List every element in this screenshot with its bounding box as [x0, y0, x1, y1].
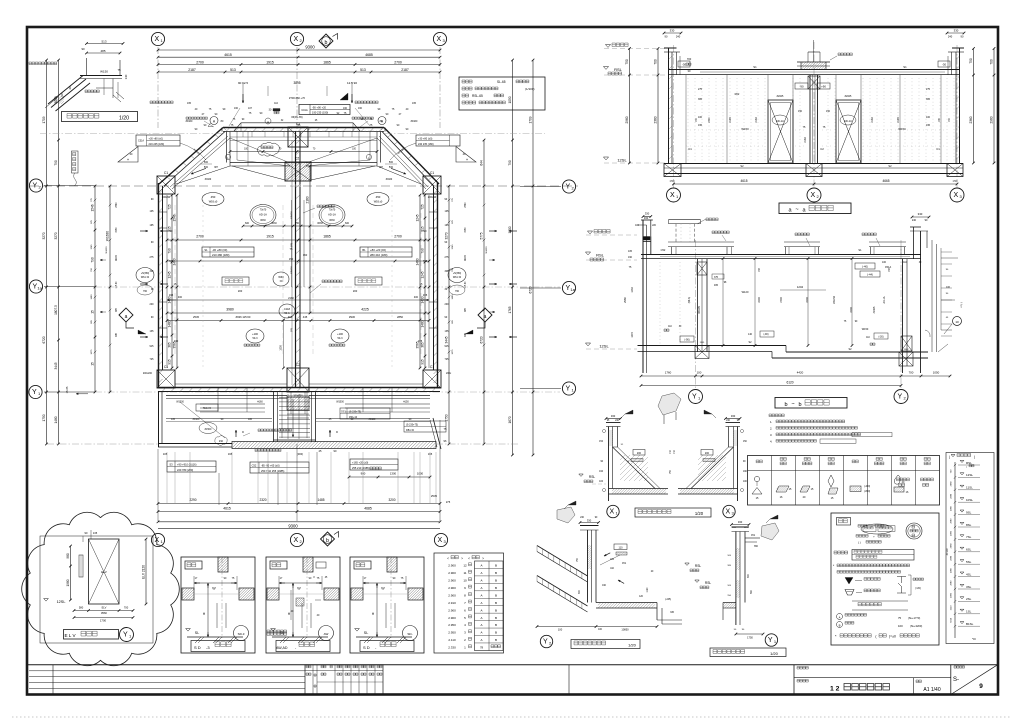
grid line X3 (top) — [439, 47, 441, 128]
svg-text:4SL: 4SL — [966, 572, 972, 576]
ro-ro bottom dim — [736, 633, 763, 635]
svg-text:12SL: 12SL — [617, 158, 627, 163]
svg-text:365: 365 — [168, 342, 172, 348]
svg-text:1750: 1750 — [42, 414, 46, 421]
lower boxed label S3 — [167, 461, 216, 472]
svg-text:(<20): (<20) — [915, 587, 921, 590]
svg-text:165: 165 — [428, 452, 433, 456]
valley diagonals to C2 — [232, 166, 285, 180]
svg-text:10850: 10850 — [621, 628, 629, 632]
grid circle X1 section a-a — [667, 188, 681, 202]
svg-text:275: 275 — [926, 88, 931, 91]
svg-text:B: B — [495, 638, 497, 642]
svg-text:2190: 2190 — [729, 117, 732, 123]
svg-text:100: 100 — [882, 261, 887, 264]
svg-text:1915: 1915 — [266, 235, 274, 239]
svg-text:AD-1A: AD-1A — [844, 119, 852, 123]
svg-text:11: 11 — [463, 571, 466, 575]
svg-text:S1: S1 — [204, 248, 208, 252]
ro-ro RSL label — [695, 580, 699, 582]
svg-text:B: B — [495, 579, 497, 583]
right bay boxed labels — [340, 408, 390, 419]
svg-text:1204: 1204 — [797, 285, 804, 289]
penthouse bottom inner wall — [230, 162, 377, 164]
title block right section — [793, 665, 795, 695]
svg-text:1/20: 1/20 — [695, 511, 704, 516]
svg-text:160: 160 — [358, 107, 363, 110]
svg-text:B: B — [495, 586, 497, 590]
svg-text:W120: W120 — [742, 290, 749, 294]
i-i inclined slab band 2 — [537, 576, 588, 607]
svg-text:2980: 2980 — [951, 481, 953, 487]
grid circle X3 bottom — [434, 533, 447, 546]
svg-text:S1: S1 — [858, 248, 862, 252]
a-a parapet wall ticks — [669, 56, 960, 160]
svg-text:AW,AD: AW,AD — [276, 646, 288, 650]
svg-text:400: 400 — [414, 296, 419, 299]
plan bottom dimension row 9300 — [158, 521, 440, 523]
plan bottom dimension row 4615/4685 — [158, 511, 440, 513]
svg-text:70x70: 70x70 — [329, 209, 336, 212]
svg-text:2960: 2960 — [623, 297, 627, 303]
section a-a center column — [809, 75, 811, 163]
plan right exterior wall — [437, 183, 439, 388]
svg-text:DB1 ±0: DB1 ±0 — [406, 429, 415, 432]
svg-text:915: 915 — [445, 345, 450, 348]
ELV left door — [79, 555, 83, 577]
marker circle A left — [210, 117, 218, 125]
svg-text:A: A — [480, 571, 482, 575]
svg-text:Y: Y — [692, 394, 697, 401]
svg-text:2540: 2540 — [116, 202, 118, 208]
svg-text:Y: Y — [123, 632, 128, 639]
svg-text:240: 240 — [676, 35, 681, 39]
svg-text:6720: 6720 — [529, 286, 533, 293]
section a-a interior vertical hatch — [688, 78, 954, 161]
svg-text:219 245 (180): 219 245 (180) — [149, 143, 165, 146]
svg-text:210 280 (180): 210 280 (180) — [212, 253, 229, 257]
section b-b title box — [775, 398, 847, 409]
section a-a level label 12SL — [603, 157, 608, 160]
plan roof slope wall right — [384, 128, 439, 185]
svg-text:#2025: #2025 — [777, 95, 784, 98]
svg-text:815: 815 — [168, 226, 172, 232]
svg-text:9: 9 — [979, 683, 983, 690]
svg-text:110: 110 — [274, 102, 278, 105]
svg-text:1865: 1865 — [323, 235, 331, 239]
sheet number box — [950, 665, 952, 695]
svg-text:200: 200 — [353, 289, 358, 293]
svg-text:R02: R02 — [735, 92, 740, 96]
svg-text:W61 ±0: W61 ±0 — [141, 276, 150, 279]
svg-text:200x200: 200x200 — [143, 372, 153, 375]
lower boxed label C52 — [250, 462, 309, 473]
svg-text:50-3: 50-3 — [337, 337, 343, 340]
svg-text:5SL: 5SL — [966, 560, 972, 564]
grid circle Y1 section b-b — [689, 390, 703, 404]
svg-text:365: 365 — [926, 98, 931, 101]
svg-text:1302: 1302 — [904, 349, 910, 351]
ha-ha RSL label — [579, 474, 583, 476]
legend symbol col4 — [828, 475, 834, 487]
section b-b slab feet hatch — [695, 346, 709, 359]
plan interior dimension row 2545/2850 — [167, 320, 429, 322]
svg-text:500: 500 — [204, 166, 209, 169]
svg-text:A: A — [480, 601, 482, 605]
svg-text:~: ~ — [791, 402, 794, 408]
section marker b bottom — [321, 532, 335, 546]
right dim stack line 2 — [483, 140, 485, 444]
floor table AB grid — [475, 561, 504, 651]
right dim stack line 1 — [448, 186, 450, 444]
svg-text:#630: #630 — [260, 219, 266, 222]
opening detail box at 181 — [181, 557, 255, 653]
section b-b left wall — [642, 220, 644, 373]
svg-text:#700 #60 +70: #700 #60 +70 — [289, 96, 305, 100]
svg-text:AD-1A: AD-1A — [328, 213, 336, 217]
svg-text:X: X — [810, 192, 815, 199]
svg-text:330: 330 — [738, 520, 743, 524]
grid circle X1 bottom — [151, 533, 164, 546]
penthouse top boxed level label — [299, 105, 350, 115]
svg-text:1245: 1245 — [168, 271, 172, 278]
svg-text:#930: #930 — [349, 315, 355, 319]
i-i bottom dim — [537, 626, 657, 628]
svg-text:500: 500 — [204, 161, 209, 164]
left dim stack line 3 — [94, 186, 96, 392]
svg-text:1301: 1301 — [700, 342, 706, 344]
svg-text:RSL: RSL — [596, 253, 605, 258]
right wall oval stack extra — [449, 285, 465, 295]
svg-text:W: W — [212, 587, 216, 591]
svg-text:(-800): (-800) — [864, 491, 870, 493]
svg-text:C118: C118 — [284, 307, 291, 311]
section a-a title box — [779, 203, 851, 214]
plan wall hatch ticks right wall — [434, 190, 438, 383]
svg-text:SL: SL — [364, 631, 368, 635]
plan center stair extra lines — [287, 417, 309, 419]
lower handrail wall left — [166, 395, 287, 397]
svg-text:200: 200 — [637, 452, 642, 455]
svg-text:37120: 37120 — [946, 548, 949, 555]
svg-text:-30: -30 — [942, 63, 946, 67]
svg-text:110: 110 — [619, 547, 624, 550]
a section marker left — [119, 308, 133, 322]
oval tag AD-1A right — [319, 205, 345, 226]
grid circle Y1a right — [562, 281, 575, 294]
grid circle X2 bottom — [290, 533, 303, 546]
svg-text:725: 725 — [445, 358, 450, 361]
svg-text:C52: C52 — [252, 464, 257, 468]
column C1 top-right — [423, 176, 441, 194]
svg-text:2.900: 2.900 — [448, 616, 456, 620]
slope extra parallel left — [170, 136, 228, 187]
plan interior vertical dim chain right — [424, 195, 426, 368]
svg-text:100: 100 — [898, 624, 903, 628]
section a-a left dims — [629, 49, 631, 164]
svg-text:2.950: 2.950 — [448, 623, 456, 627]
svg-text:2.950: 2.950 — [448, 631, 456, 635]
svg-text:135: 135 — [445, 330, 450, 333]
gridline Y1a dashed — [95, 286, 560, 288]
grid circle X2 top — [290, 32, 303, 45]
svg-text:A1 1/40: A1 1/40 — [923, 687, 940, 693]
plan Y1a inner dim ticks — [166, 286, 169, 289]
oval tag 450 right — [367, 193, 389, 206]
svg-text:105: 105 — [445, 210, 450, 213]
grid circle X1 top — [151, 32, 164, 45]
grid circle Y1a left — [29, 280, 42, 293]
ELV shaft — [89, 539, 120, 604]
section b-b circled detail 10 — [953, 317, 962, 326]
plan interior dash unit boundaries — [174, 205, 176, 355]
svg-text:b: b — [798, 402, 801, 408]
svg-text:+165 +20 (±0): +165 +20 (±0) — [352, 461, 368, 465]
svg-text:S-: S- — [953, 677, 959, 683]
hanrei slit figure — [897, 577, 906, 594]
left wall oval stack extra — [137, 285, 153, 295]
left stack arrows — [140, 230, 148, 232]
svg-text:1546: 1546 — [173, 214, 177, 221]
plan interior mid dim row — [167, 260, 429, 262]
hanrei label — [837, 518, 851, 526]
svg-text:+90: +90 — [821, 85, 826, 89]
svg-text:280 210 (180): 280 210 (180) — [370, 253, 387, 257]
svg-text:3.: 3. — [770, 433, 773, 437]
svg-text:SD-: SD- — [407, 632, 412, 636]
parapet hatched band — [232, 442, 436, 449]
svg-text:513: 513 — [360, 68, 366, 72]
svg-text:100: 100 — [697, 371, 702, 375]
svg-text:105: 105 — [628, 250, 633, 253]
svg-text:195: 195 — [445, 224, 450, 227]
a section marker right — [478, 308, 492, 322]
svg-text:160: 160 — [343, 107, 348, 110]
grid line X2 (top) — [296, 47, 298, 131]
svg-text:X: X — [436, 36, 441, 43]
plan vertical dim near center bottom — [283, 320, 285, 368]
svg-text:10: 10 — [955, 320, 959, 324]
svg-text:140: 140 — [124, 74, 128, 79]
svg-text:2187: 2187 — [188, 68, 196, 72]
svg-text:1546: 1546 — [91, 204, 95, 211]
opening detail box at 266 — [266, 557, 340, 653]
svg-text:360: 360 — [303, 253, 308, 257]
scale box — [912, 678, 914, 695]
plan wall window jamb marks — [159, 211, 168, 213]
svg-text:4615: 4615 — [740, 179, 747, 183]
unit label A-type — [222, 277, 249, 285]
svg-text:400: 400 — [178, 296, 183, 299]
b-b right edge ladder ticks — [941, 252, 952, 336]
svg-text:W930: W930 — [465, 254, 467, 261]
svg-text:2980: 2980 — [951, 493, 953, 499]
ha-ha small circles — [603, 430, 606, 433]
svg-text:#630: #630 — [329, 219, 335, 222]
svg-text:700: 700 — [124, 606, 129, 610]
grid circle Y2 left — [29, 179, 42, 192]
svg-text:10: 10 — [463, 579, 467, 583]
svg-text:C2: C2 — [820, 147, 824, 151]
floor height table — [434, 553, 504, 653]
svg-text:): ) — [974, 455, 975, 459]
svg-text:C51: C51 — [622, 563, 627, 565]
svg-text:6720: 6720 — [480, 336, 484, 343]
plan bottom dimension row 2290/2320/1485/3200 — [158, 503, 440, 505]
svg-text:AD-1A: AD-1A — [883, 296, 886, 303]
svg-text:445: 445 — [303, 315, 308, 319]
svg-text:1245: 1245 — [452, 244, 454, 250]
column C1 top-left — [157, 176, 175, 194]
plan penthouse label cluster — [186, 117, 207, 119]
opening detail title SD- — [360, 641, 414, 652]
left dim stack line 4 — [109, 186, 111, 392]
legend col7 body text — [897, 478, 910, 481]
hanrei text line 3 — [856, 535, 868, 538]
plan bottom extension verticals dense — [167, 452, 436, 503]
svg-text:3980: 3980 — [226, 308, 234, 312]
svg-text:DS1: DS1 — [341, 412, 346, 414]
slope triangle right — [456, 147, 476, 163]
hanrei oval around boxed pair — [861, 524, 893, 534]
right lower beam lines — [345, 403, 430, 405]
AW box note — [267, 633, 287, 636]
svg-text:2540: 2540 — [465, 202, 467, 208]
svg-text:200: 200 — [150, 303, 155, 306]
ro-ro flag — [770, 515, 778, 519]
svg-text:(-90): (-90) — [763, 333, 768, 336]
svg-text:750: 750 — [625, 59, 629, 65]
svg-text:70x70: 70x70 — [260, 209, 267, 212]
page bottom perforation line — [12, 716, 1012, 718]
svg-text:115.60: 115.60 — [116, 281, 118, 289]
svg-text:B: B — [495, 631, 497, 635]
slope arrow right — [391, 168, 406, 174]
svg-text:8SL: 8SL — [966, 523, 972, 527]
section a-a braced opening AD-1A left — [768, 100, 793, 163]
svg-text:200: 200 — [445, 303, 450, 306]
section a-a interior structure lines — [685, 75, 687, 163]
svg-text:2300: 2300 — [709, 117, 711, 123]
plan interior verticals light — [202, 195, 204, 368]
svg-text:B: B — [495, 564, 497, 568]
ro-ro title box — [710, 648, 786, 657]
svg-text:2190: 2190 — [897, 117, 900, 123]
svg-text:150: 150 — [798, 110, 803, 113]
svg-text:C01A: C01A — [301, 109, 308, 112]
svg-text:11SL: 11SL — [966, 486, 973, 490]
svg-text:1750: 1750 — [747, 636, 753, 640]
svg-text:( ): ( ) — [858, 541, 861, 545]
svg-text:107: 107 — [248, 107, 253, 110]
svg-text:330: 330 — [954, 29, 959, 33]
svg-text:2160: 2160 — [755, 117, 758, 123]
svg-text:Y: Y — [32, 183, 37, 190]
svg-text:1a: 1a — [37, 286, 42, 291]
left bay oval tag — [199, 423, 217, 434]
section b-b floor slab — [638, 345, 787, 347]
plan lower window sills — [200, 411, 265, 413]
svg-text:AW: AW — [324, 632, 329, 636]
balcony bottom wall left — [158, 443, 232, 445]
svg-text:S3: S3 — [169, 463, 173, 467]
section a-a roof slab — [669, 69, 960, 71]
right dim stack line 4 — [532, 60, 534, 455]
svg-text:#560: #560 — [101, 611, 107, 615]
section b-b bottom dims — [641, 375, 950, 377]
note balcony label — [255, 449, 281, 452]
svg-text:330: 330 — [587, 519, 592, 523]
svg-text:SL: SL — [195, 631, 199, 635]
section b-b level label RSL — [585, 252, 590, 255]
svg-text:3270: 3270 — [42, 232, 46, 239]
lower handrail wall right — [309, 395, 430, 397]
gridline Y1 dashed — [95, 391, 560, 393]
svg-text:1/20: 1/20 — [770, 651, 779, 656]
svg-text:W2195: W2195 — [698, 306, 701, 314]
svg-text:Y: Y — [768, 637, 773, 644]
i-i leader arrows — [604, 553, 610, 556]
hanrei text line 1 — [858, 525, 867, 528]
svg-text:190: 190 — [628, 256, 633, 259]
plan center wall on X2 — [295, 131, 297, 388]
svg-text:1485: 1485 — [317, 498, 324, 502]
left dim stack outer line — [46, 60, 48, 444]
marker circle L pair — [225, 154, 230, 159]
plan top dimension row 2700/1915/1865/2700 — [158, 64, 440, 66]
svg-text:3895: 3895 — [293, 81, 300, 85]
svg-text:#9160: #9160 — [186, 120, 193, 123]
oval tag bottom left — [246, 329, 264, 343]
svg-text:#10: #10 — [219, 440, 224, 443]
svg-text:6720: 6720 — [42, 336, 46, 343]
svg-text:+30 +80 (±0): +30 +80 (±0) — [418, 138, 432, 141]
chain line eaves level left — [40, 133, 222, 135]
svg-text:2SL: 2SL — [966, 597, 972, 601]
svg-text:B1: B1 — [362, 248, 366, 252]
svg-text:+80 +20 (±0): +80 +20 (±0) — [370, 248, 386, 252]
title block divider mid — [568, 665, 570, 695]
A-part detail title box — [62, 112, 138, 122]
grid circle Y1 left — [29, 385, 42, 398]
svg-text:1a: 1a — [570, 287, 575, 292]
section b-b level label 12SL — [585, 343, 590, 346]
svg-text:2980: 2980 — [951, 505, 953, 511]
svg-text:3200: 3200 — [388, 498, 395, 502]
svg-text:3080: 3080 — [465, 227, 467, 233]
title block left rule rows — [29, 670, 305, 672]
section a-a left parapet — [668, 48, 670, 163]
svg-text:b: b — [784, 402, 787, 408]
svg-text:4615: 4615 — [223, 507, 231, 511]
i-i boxed 110 slit — [614, 544, 627, 550]
svg-text:2980: 2980 — [951, 580, 953, 586]
svg-text:2187: 2187 — [401, 68, 409, 72]
svg-text:2110: 2110 — [951, 605, 953, 610]
svg-text:A: A — [480, 608, 482, 612]
svg-text:RSL-65: RSL-65 — [472, 94, 483, 98]
plan wall hatch ticks center wall — [296, 140, 301, 386]
svg-text:-90 +90 +20: -90 +90 +20 — [312, 106, 327, 110]
svg-text:X: X — [609, 509, 614, 516]
svg-text:(99-3): (99-3) — [688, 297, 691, 304]
svg-text:+30 +80 (±0): +30 +80 (±0) — [149, 138, 163, 141]
svg-text:b: b — [326, 538, 329, 544]
svg-text:644: 644 — [480, 160, 484, 166]
svg-text:2.910: 2.910 — [448, 601, 456, 605]
svg-text:1807.5: 1807.5 — [54, 305, 58, 315]
svg-text:+100: +100 — [252, 332, 258, 336]
